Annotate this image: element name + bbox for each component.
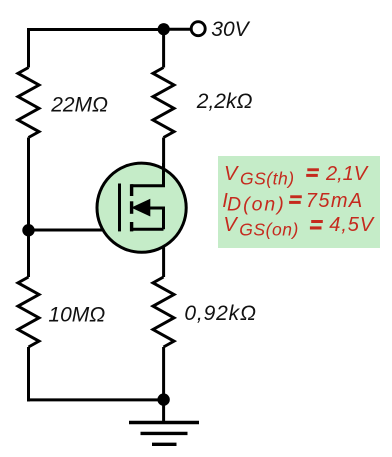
svg-text:GS(on): GS(on) bbox=[239, 220, 299, 240]
svg-text:GS(th): GS(th) bbox=[240, 168, 295, 188]
wire source bbox=[162, 228, 165, 277]
wire left vertical lower bbox=[27, 347, 30, 401]
svg-text:4,5V: 4,5V bbox=[329, 214, 375, 236]
annotation line 1: VGS(th) = 2,1V bbox=[224, 163, 369, 188]
wire bottom horizontal bbox=[27, 398, 164, 401]
wire drain bbox=[162, 138, 165, 188]
wire gate lead bbox=[29, 229, 120, 232]
resistor R2 bbox=[153, 68, 174, 138]
junction dot top bbox=[158, 23, 170, 35]
Q1 channel bottom segment bbox=[130, 222, 133, 231]
resistor R1 bbox=[18, 68, 39, 138]
wire supply lead bbox=[164, 28, 192, 31]
Q1 channel top segment bbox=[130, 184, 133, 196]
svg-text:10MΩ: 10MΩ bbox=[48, 304, 105, 327]
svg-text:75mA: 75mA bbox=[306, 190, 364, 212]
wire left vertical upper bbox=[27, 28, 30, 68]
resistor R3 bbox=[18, 277, 39, 347]
annotation line 2: ID(on) = 75mA bbox=[222, 190, 363, 215]
svg-text:D(on): D(on) bbox=[227, 193, 286, 215]
svg-text:V: V bbox=[224, 163, 239, 185]
wire top horizontal bbox=[27, 28, 164, 31]
transistor Q1 E-MOSFET bbox=[97, 163, 186, 252]
svg-text:V: V bbox=[223, 214, 238, 236]
Q1 source connection bbox=[131, 228, 164, 231]
Q1 gate bar bbox=[118, 184, 121, 232]
Q1 body arrow bbox=[131, 199, 150, 217]
ground bbox=[129, 423, 199, 445]
supply terminal circle bbox=[191, 22, 205, 36]
Q1 channel middle segment bbox=[130, 201, 133, 214]
wire ground stub bbox=[162, 400, 165, 423]
annotation line 3: VGS(on) = 4,5V bbox=[223, 214, 374, 240]
annotation box bbox=[218, 156, 380, 248]
svg-text:22MΩ: 22MΩ bbox=[50, 94, 108, 117]
svg-text:2,1V: 2,1V bbox=[325, 163, 369, 185]
junction dot bottom bbox=[157, 393, 169, 405]
Q1 body-source connection bbox=[148, 208, 164, 229]
svg-text:30V: 30V bbox=[211, 18, 250, 41]
junction dot gate bbox=[22, 224, 34, 236]
wire right vertical lower bbox=[162, 347, 165, 400]
wire right vertical upper bbox=[162, 30, 165, 68]
resistor R4 bbox=[153, 277, 174, 347]
wire left vertical middle bbox=[27, 138, 30, 278]
Q1 drain connection bbox=[131, 163, 164, 186]
svg-text:2,2kΩ: 2,2kΩ bbox=[196, 90, 253, 113]
svg-text:0,92kΩ: 0,92kΩ bbox=[184, 302, 256, 325]
